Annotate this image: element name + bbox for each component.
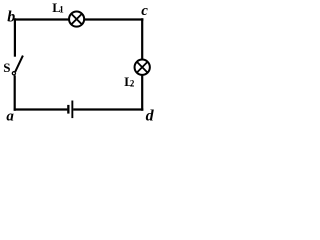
svg-text:c: c <box>141 3 148 19</box>
lamp L1 <box>69 12 84 27</box>
wire right (c to d) <box>141 18 143 111</box>
svg-text:S: S <box>3 60 10 75</box>
svg-text:a: a <box>6 109 14 125</box>
svg-text:b: b <box>7 8 15 25</box>
wire bottom left (a to battery) <box>14 108 68 110</box>
wire top (b to c) <box>14 18 144 20</box>
wire left lower (switch to a) <box>14 75 16 111</box>
wire bottom right (battery to d) <box>73 108 143 110</box>
battery short plate <box>67 105 69 114</box>
svg-text:2: 2 <box>130 79 135 89</box>
svg-text:d: d <box>146 107 155 124</box>
switch S blade <box>15 56 23 72</box>
switch S pivot contact <box>12 72 15 75</box>
wire left upper (b to switch) <box>14 18 16 56</box>
lamp L2 <box>135 60 150 75</box>
battery long plate <box>71 101 73 119</box>
svg-text:1: 1 <box>59 5 64 15</box>
